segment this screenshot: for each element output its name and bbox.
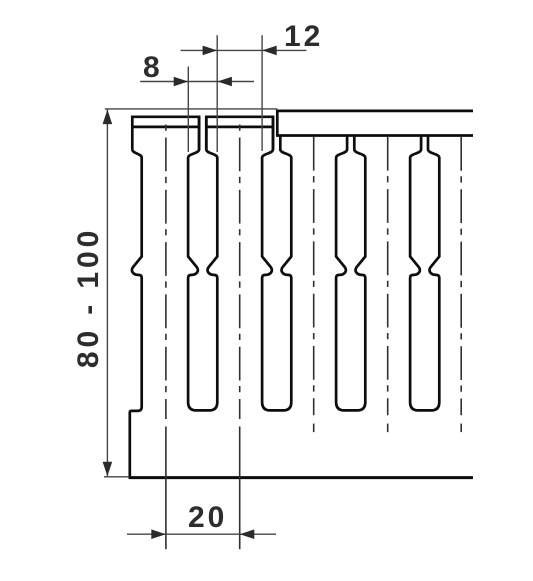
dimension 20: arrow left (240, 529, 255, 539)
center line finger F2 (extends down as extension for 20 dim) (239, 125, 241, 420)
svg-text:80 - 100: 80 - 100 (72, 227, 105, 368)
dimension 12: arrow right (203, 46, 218, 56)
center line finger F5 (460, 137, 462, 415)
center line finger F3 (313, 137, 315, 415)
svg-text:12: 12 (284, 20, 323, 53)
svg-text:8: 8 (143, 51, 163, 84)
dimension 8: arrow left (217, 77, 232, 87)
top rail band (right, cut at x=473) (277, 111, 473, 136)
dimension 12: arrow left (262, 46, 277, 56)
left outer edge of duct wall (130, 149, 142, 477)
dimension 8: extension line left (stem1 right edge) (187, 67, 189, 153)
dimension 12: extension line right (stem2 right edge) (261, 35, 263, 151)
slot S4 between fingers F4-F5 (410, 136, 439, 411)
dimension 80-100: extension line bottom (104, 476, 128, 478)
dimension 8: dimension line (140, 81, 254, 83)
center line finger F4 (387, 137, 389, 415)
dimension 20: arrow right (151, 529, 166, 539)
slot S1 between fingers F1-F2 (188, 117, 217, 411)
center line finger F1 (extends down as extension for 20 dim) (165, 125, 167, 420)
finger F2 head cap (206, 117, 273, 150)
dimension 8: arrow right (174, 77, 189, 87)
dimension 80-100: extension line top (105, 108, 277, 110)
dimension 12: dimension line (181, 49, 307, 51)
dimension 80-100: arrow down (103, 462, 113, 477)
svg-text:20: 20 (188, 501, 227, 534)
duct bottom edge (129, 476, 474, 479)
dimension 12: extension line shared (stem2 left edge) (216, 35, 218, 152)
finger F1 head cap (132, 117, 199, 150)
dimension 20: dimension line (127, 533, 276, 535)
dimension 80-100: dimension line (106, 110, 108, 477)
slot S2 between fingers F2-F3 (262, 117, 291, 411)
slot S3 between fingers F3-F4 (336, 136, 365, 411)
dimension 80-100: arrow up (103, 110, 113, 125)
